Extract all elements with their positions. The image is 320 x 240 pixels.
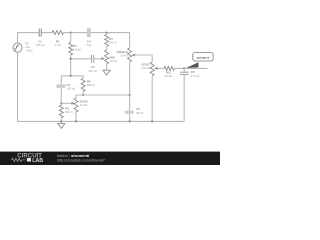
svg-text:http://circuitlab.com/c6mz487: http://circuitlab.com/c6mz487 — [57, 158, 105, 162]
svg-text:1 kΩ: 1 kΩ — [55, 43, 62, 47]
node treble rail junction — [128, 94, 130, 96]
svg-text:kimbo / strumenti: kimbo / strumenti — [57, 153, 89, 158]
resistor R11 — [164, 66, 175, 70]
svg-text:OUTPUT: OUTPUT — [197, 56, 210, 60]
svg-text:4 µF: 4 µF — [86, 43, 92, 47]
svg-text:1.8 kΩ: 1.8 kΩ — [73, 47, 82, 51]
svg-text:100 kΩ: 100 kΩ — [141, 66, 151, 70]
svg-text:10 kΩ: 10 kΩ — [80, 103, 88, 107]
svg-text:68 nF: 68 nF — [136, 111, 144, 115]
svg-text:100 µF: 100 µF — [66, 86, 75, 90]
bottom rail junction dots — [60, 120, 62, 122]
node output junction — [183, 67, 185, 69]
svg-text:100 Ω: 100 Ω — [109, 40, 118, 44]
svg-text:680 Ω: 680 Ω — [87, 83, 96, 87]
potentiometer TREBLE — [128, 48, 132, 62]
wire V1 bottom and bottom ground rail — [18, 52, 185, 121]
node junction R3 tap — [105, 31, 107, 33]
svg-text:680 Ω: 680 Ω — [65, 110, 74, 114]
capacitor C4 — [87, 28, 91, 37]
svg-text:220 nF: 220 nF — [36, 43, 45, 47]
footer bar — [0, 152, 220, 165]
svg-text:LAB: LAB — [32, 158, 43, 164]
voltage source V1 — [13, 43, 22, 52]
potentiometer BASS — [75, 95, 77, 98]
potentiometer LEVEL — [150, 62, 154, 76]
resistor R1 — [52, 31, 63, 35]
OUTPUT flag — [186, 62, 198, 68]
capacitor C8 — [183, 68, 185, 71]
svg-text:1 kHz: 1 kHz — [25, 49, 33, 53]
node C2 bottom junction, wire to BASS wiper — [60, 102, 62, 104]
resistor R6 — [60, 103, 62, 105]
wire top rail from V1 across to treble branch — [18, 33, 130, 48]
resistor R3 — [106, 33, 108, 35]
node R5 bottom junction, wire from BASS top to treble rail — [82, 94, 84, 96]
potentiometer MID — [105, 50, 109, 64]
capacitor C5 — [129, 95, 131, 111]
capacitor C2 — [60, 76, 62, 85]
svg-text:10 kΩ: 10 kΩ — [120, 54, 128, 58]
node R2 bottom junction, wire to C3 and down — [71, 59, 102, 76]
resistor R2 — [70, 33, 72, 43]
svg-text:470 pF: 470 pF — [191, 74, 200, 78]
wire C2 to R5 top link — [61, 75, 83, 77]
node junction R2 tap — [70, 31, 72, 33]
capacitor C1 — [39, 29, 41, 37]
svg-text:220 nF: 220 nF — [88, 69, 97, 73]
capacitor C3 — [92, 55, 94, 63]
resistor R5 — [82, 76, 84, 78]
svg-text:10 kΩ: 10 kΩ — [110, 59, 118, 63]
svg-text:22 kΩ: 22 kΩ — [165, 74, 173, 78]
ground on bottom rail — [60, 121, 62, 123]
ground below MID — [103, 70, 110, 75]
